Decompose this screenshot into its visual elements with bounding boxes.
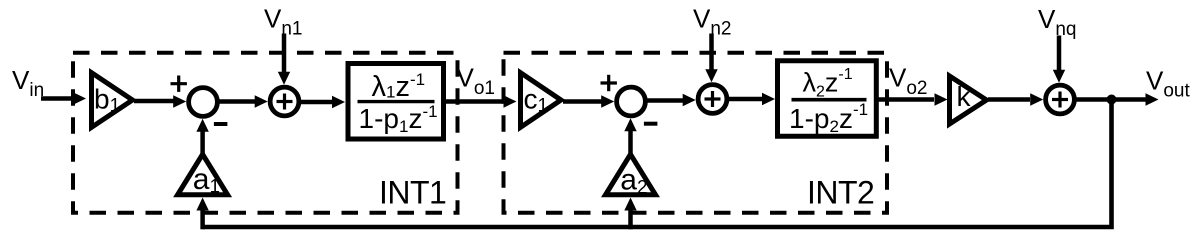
gain c1 — [521, 73, 562, 128]
wire Vn1 down to S2 — [282, 34, 287, 74]
wire feedback up to a1 — [200, 209, 205, 229]
summing node S5 — [1046, 85, 1075, 114]
wire b1 to summer S1 — [134, 99, 175, 104]
gain a1 — [178, 154, 228, 195]
svg-text:INT2: INT2 — [807, 175, 874, 211]
summing node S4 — [698, 85, 727, 114]
wire Vnq down to S5 — [1057, 36, 1062, 72]
minus sign at S3 feedback input — [644, 122, 658, 126]
wire Vn2 down to S4 — [709, 34, 714, 72]
integrator transfer block H1 — [348, 64, 444, 140]
summing node S1 — [189, 88, 218, 117]
svg-text:Vnq: Vnq — [1038, 4, 1076, 40]
plus sign inside S4 — [705, 97, 721, 100]
wire k to summer S5 — [988, 97, 1030, 102]
svg-text:a2: a2 — [620, 164, 647, 199]
plus sign inside S2 — [277, 100, 293, 103]
svg-text:Vo1: Vo1 — [457, 63, 495, 100]
wire a2 to S3 — [628, 131, 633, 154]
wire Vin to b1 — [41, 96, 75, 101]
wire S4 to block H2 — [727, 97, 762, 102]
wire S5 to output — [1074, 97, 1146, 102]
fraction bar H1 — [358, 100, 435, 103]
wire H2 to k — [877, 97, 934, 102]
fraction bar H2 — [792, 98, 867, 102]
junction node dot — [1107, 95, 1117, 105]
plus sign at S1 input — [171, 82, 187, 85]
svg-text:a1: a1 — [193, 163, 220, 198]
minus sign at S1 feedback input — [214, 122, 228, 126]
svg-text:k: k — [957, 81, 972, 112]
wire H1 to c1 — [446, 99, 503, 104]
svg-text:Vin: Vin — [12, 65, 44, 101]
wire S3 to S4 — [646, 98, 684, 103]
plus sign inside S5 — [1052, 98, 1068, 101]
svg-text:Vo2: Vo2 — [889, 63, 927, 100]
gain b1 — [92, 73, 133, 128]
wire feedback up to a2 — [628, 209, 633, 229]
wire c1 to summer S3 — [563, 99, 602, 104]
integrator INT1 dashed box — [73, 53, 458, 213]
integrator INT2 dashed box — [504, 53, 888, 213]
feedback wire from junction down and across bottom — [203, 100, 1112, 228]
svg-text:INT1: INT1 — [379, 175, 446, 211]
wire S2 to block H1 — [299, 100, 332, 105]
wire S1 to S2 — [218, 99, 256, 104]
gain k — [950, 76, 987, 124]
plus sign at S3 input — [601, 81, 617, 84]
summing node S3 — [617, 87, 646, 116]
integrator transfer block H2 — [778, 61, 877, 137]
svg-text:Vout: Vout — [1146, 66, 1190, 102]
summing node S2 — [270, 87, 299, 116]
gain a2 — [606, 154, 656, 195]
wire a1 to S1 — [200, 130, 205, 154]
